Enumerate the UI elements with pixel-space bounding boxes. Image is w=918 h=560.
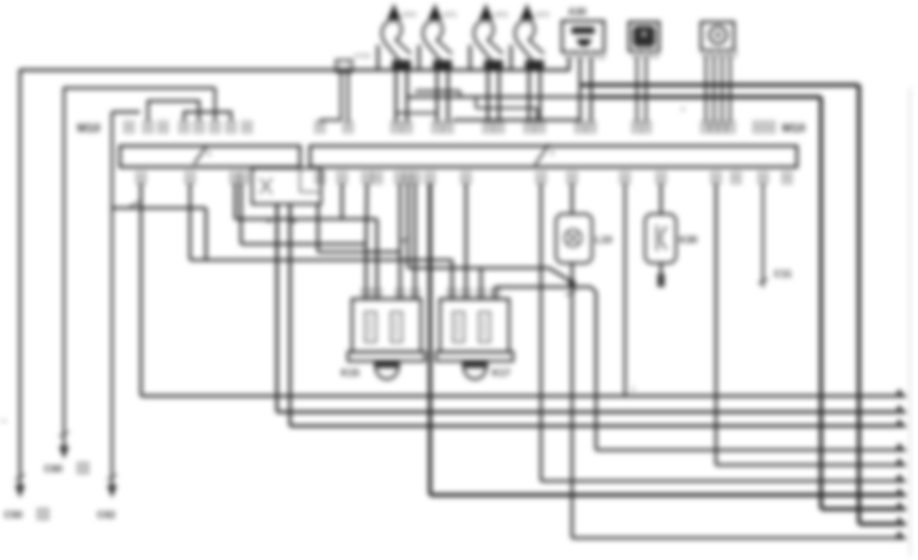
label C60 bbox=[44, 463, 88, 475]
relay K15 bbox=[348, 289, 425, 379]
wire C62 vertical from left strip pin bbox=[112, 112, 140, 487]
wire component C pin3 down bbox=[721, 56, 723, 123]
label C50 bbox=[4, 509, 48, 521]
pin teeth component C bbox=[703, 50, 736, 56]
page left edge stub bbox=[0, 420, 7, 422]
pin above right strip x646 bbox=[642, 122, 651, 133]
arrow exit y495 bbox=[894, 488, 905, 497]
svg-text:N73: N73 bbox=[536, 12, 549, 19]
wire pin190 down join H260 bbox=[189, 183, 192, 260]
wire pin235 via y219 to K15 pin2 bbox=[235, 183, 377, 299]
wire E6 pin541 exit y481 bbox=[541, 183, 906, 481]
svg-text:a: a bbox=[681, 106, 685, 113]
pin above left strip x148 bbox=[144, 122, 153, 133]
wire pin241 via y244 to K15 pin1 bbox=[241, 183, 366, 299]
wire N71 pin B down to strip bbox=[447, 68, 450, 123]
pin above right strip x488 bbox=[484, 122, 493, 133]
relay K17 bbox=[436, 289, 513, 379]
connector tick on C60 wire bbox=[59, 432, 69, 437]
arrow exit y396 bbox=[894, 389, 905, 398]
connector tick on C62 wire bbox=[107, 475, 117, 480]
arrow exit y412 bbox=[894, 405, 905, 414]
wire component C pin1 down bbox=[705, 56, 707, 123]
connector strip left (M10 A) bbox=[120, 146, 300, 167]
arrow C62 wire end bbox=[107, 485, 117, 498]
inline connector on y70 bus bbox=[336, 60, 352, 72]
svg-text:M10: M10 bbox=[77, 121, 101, 135]
wire x625 from strip to junction on E1 bbox=[624, 183, 626, 396]
wire C62 branch y208 to x206 bbox=[112, 202, 206, 209]
pin above left strip x163 bbox=[159, 122, 168, 133]
wire N71 pin A down to strip bbox=[436, 68, 439, 123]
pin below right strip x408 bbox=[404, 173, 413, 184]
wire E10 from splice exit y538 bbox=[572, 283, 906, 538]
pin below right strip x377 bbox=[373, 173, 382, 184]
svg-text:4: 4 bbox=[207, 151, 211, 158]
wire bus y70 from left frame to A30 pin 1 bbox=[20, 69, 569, 72]
jumper loop pins 184-231 bbox=[184, 112, 231, 121]
wire E7 bold pin430 exit y495 bbox=[430, 183, 906, 495]
wire connector to pin 348 bbox=[347, 72, 349, 123]
wire jog at 460 between buses bbox=[459, 91, 461, 97]
wire component B pin2 down bbox=[645, 57, 647, 123]
svg-text:M10: M10 bbox=[782, 121, 806, 135]
injector N70 body bbox=[382, 4, 411, 69]
wire A30 pin3 down through y97 to strip bbox=[590, 58, 593, 123]
svg-text:K17: K17 bbox=[492, 368, 511, 379]
wire N70 pin B down to strip bbox=[406, 68, 409, 123]
wire C50 left vertical bbox=[19, 69, 22, 487]
wire xbox pin322 via y252 bbox=[318, 204, 401, 252]
wire bold bus y97 to right side bbox=[591, 95, 821, 99]
pin below right strip x661 bbox=[657, 173, 666, 184]
arrow exit y426 bbox=[894, 419, 905, 428]
svg-text:N70: N70 bbox=[403, 12, 416, 19]
arrow exit y524 bbox=[894, 517, 905, 526]
pin below right strip x466 bbox=[462, 173, 471, 184]
wire x206 down join H260 bbox=[205, 208, 208, 260]
svg-text:K30: K30 bbox=[679, 235, 698, 246]
connector tick on C11 wire bbox=[758, 279, 768, 284]
pin below left strip x243 bbox=[239, 173, 248, 184]
wire bold bus y85 to right side bbox=[580, 83, 859, 87]
wire N73 pin B down to strip bbox=[539, 68, 542, 123]
pin above right strip x730 bbox=[726, 122, 735, 133]
arrow exit y509 bbox=[894, 502, 905, 511]
wire exit y524 from x859 bbox=[859, 522, 906, 526]
pin below right strip x625 bbox=[621, 173, 630, 184]
wire C60 left vertical bbox=[63, 87, 65, 448]
wire component C pin4 down bbox=[729, 56, 731, 123]
label M10 left bbox=[77, 121, 101, 135]
pin below right strip x572 bbox=[568, 173, 577, 184]
wire jog y509 from x821 exit bbox=[821, 507, 906, 511]
pin above right strip x637 bbox=[633, 122, 642, 133]
pin teeth component B bbox=[633, 51, 658, 57]
wire strip pin466 to K17 pin2 bbox=[465, 183, 468, 299]
wire E4 from K17 pin4 via y287 exit y450 bbox=[495, 287, 906, 450]
arrow exit y465 bbox=[894, 458, 905, 467]
wire N72 pin A down to strip bbox=[487, 68, 490, 123]
wire H268 from pin408 to splice junction bbox=[400, 183, 572, 282]
pin below right strip x736 bbox=[732, 173, 741, 184]
pin below right strip x400 bbox=[396, 173, 405, 184]
arrow C60 wire end bbox=[59, 446, 69, 459]
wire bold vertical x821 down right side bbox=[819, 97, 823, 509]
wire K17 pin3 from H268 junction bbox=[480, 268, 483, 299]
pin below right strip x415 bbox=[411, 173, 420, 184]
component C circle sensor bbox=[701, 22, 734, 50]
wire E2 xbox pin277 exit y412 bbox=[267, 204, 906, 412]
pin below right strip x763 bbox=[759, 173, 768, 184]
svg-text:K15: K15 bbox=[341, 368, 360, 379]
wire H260 to K17 pin1 bbox=[190, 260, 452, 299]
pin above right strip x758 bbox=[754, 122, 763, 133]
pin above right strip x499 bbox=[495, 122, 504, 133]
svg-text:L10: L10 bbox=[595, 235, 613, 246]
label C11 bbox=[774, 269, 792, 280]
wire L10 top from strip bbox=[571, 183, 574, 214]
connector strip right (M10 B) bbox=[310, 144, 797, 167]
pin above right strip x770 bbox=[766, 122, 775, 133]
pin below right strip x541 bbox=[537, 173, 546, 184]
arrow exit y481 bbox=[894, 474, 905, 483]
wire strip pin415 to K15 pin4 bbox=[414, 183, 417, 299]
wire component B pin1 down bbox=[636, 57, 638, 123]
svg-text:N71: N71 bbox=[444, 12, 457, 19]
pin above right strip x540 bbox=[536, 122, 545, 133]
label a at x625 junction bbox=[631, 386, 635, 393]
pin below right strip x367 bbox=[363, 173, 372, 184]
inline connector box with X bbox=[252, 168, 321, 204]
wire E3 xbox pin290 exit y426 bbox=[290, 204, 906, 426]
wire bold vertical x859 down right side bbox=[857, 85, 861, 524]
label M10 right bbox=[782, 121, 806, 135]
connector tick on C50 wire bbox=[15, 475, 25, 480]
injector N71 body bbox=[423, 4, 452, 69]
pin above left strip x215 bbox=[211, 122, 220, 133]
wire L10 bottom to splice bbox=[571, 263, 574, 284]
pin below right strip x320 bbox=[316, 173, 325, 184]
pin above right strip x580 bbox=[576, 122, 585, 133]
injector N72 body bbox=[474, 4, 503, 69]
pin above right strip x348 bbox=[344, 122, 353, 133]
pin above right strip x448 bbox=[444, 122, 453, 133]
pin above right strip x396 bbox=[392, 122, 401, 133]
arrow C50 wire end bbox=[15, 485, 25, 498]
pin teeth A30 bbox=[566, 52, 604, 58]
wire N72 left pin to y70 bus bbox=[469, 45, 472, 71]
jumper loop pins 148-199 bbox=[148, 101, 199, 121]
svg-text:C11: C11 bbox=[774, 269, 792, 280]
wire N70 pin A down to strip bbox=[395, 68, 398, 123]
pin below left strip x190 bbox=[186, 173, 195, 184]
label K17 bbox=[492, 368, 511, 379]
label A30 bbox=[568, 7, 587, 18]
lamp L10 bbox=[556, 214, 592, 263]
wire strip pin367 down join bbox=[366, 183, 367, 244]
pin below right strip x430 bbox=[426, 173, 435, 184]
svg-text:A30: A30 bbox=[568, 7, 587, 18]
svg-text:a: a bbox=[631, 386, 635, 393]
wire K30 top from strip bbox=[660, 183, 663, 214]
wire strip pin342 join H219 bbox=[341, 183, 344, 219]
tick below splice bbox=[566, 291, 576, 296]
label L10 bbox=[595, 235, 613, 246]
wire A30 pin2 down through y85 to strip bbox=[579, 58, 582, 123]
switch K30 bbox=[645, 214, 676, 263]
wire injector bus y120 bbox=[453, 119, 580, 121]
wire injector bus y97 bbox=[407, 96, 591, 98]
pin above right strip x714 bbox=[710, 122, 719, 133]
pin above right strip x529 bbox=[525, 122, 534, 133]
wire bus y88 from C60 to left-strip drop bbox=[64, 88, 215, 121]
label a near component B bbox=[681, 106, 685, 113]
pin above left strip x247 bbox=[243, 122, 252, 133]
label N73 bbox=[536, 12, 549, 19]
wire A30 pin1 to y70 bus bbox=[568, 58, 571, 71]
arrow exit y538 bbox=[894, 531, 905, 540]
pin above left strip x199 bbox=[195, 122, 204, 133]
label N72 bbox=[495, 12, 508, 19]
wire N73 pin A down to strip bbox=[528, 68, 531, 123]
pin below right strip x342 bbox=[338, 173, 347, 184]
pin above left strip x184 bbox=[180, 122, 189, 133]
label wire code near N70 base bbox=[354, 53, 371, 60]
pin above left strip x129 bbox=[125, 122, 134, 133]
component B dark box bbox=[629, 22, 659, 51]
pin above right strip x722 bbox=[718, 122, 727, 133]
wire jog at 437 between buses bbox=[436, 91, 438, 97]
pin above right strip x407 bbox=[403, 122, 412, 133]
wire N72 pin B down to strip bbox=[498, 68, 501, 123]
wire component C pin2 down bbox=[713, 56, 715, 123]
label C62 bbox=[97, 510, 116, 521]
pin above right strip x706 bbox=[702, 122, 711, 133]
label N70 bbox=[403, 12, 416, 19]
pin above right strip x320 bbox=[316, 122, 325, 133]
pin above right strip x437 bbox=[433, 122, 442, 133]
wire N71 left pin to y70 bus bbox=[418, 45, 421, 71]
wire injector bus y108 bbox=[476, 107, 537, 109]
label N71 bbox=[444, 12, 457, 19]
wire jog at 537 buses bbox=[536, 108, 538, 120]
label K15 bbox=[341, 368, 360, 379]
pin below right strip x716 bbox=[712, 173, 721, 184]
svg-text:N72: N72 bbox=[495, 12, 508, 19]
pin below left strip x235 bbox=[231, 173, 240, 184]
svg-text:4: 4 bbox=[550, 150, 554, 157]
wire jog at 476 buses bbox=[475, 97, 477, 108]
svg-text:C50: C50 bbox=[4, 510, 23, 521]
pin above left strip x231 bbox=[227, 122, 236, 133]
wire injector bus y91 bbox=[415, 90, 460, 92]
label K30 bbox=[679, 235, 698, 246]
svg-text:C62: C62 bbox=[97, 510, 116, 521]
page right edge faint line bbox=[909, 88, 911, 556]
wire E5 pin716 exit y465 bbox=[716, 183, 906, 465]
wire N73 left pin to y70 bus bbox=[510, 45, 513, 71]
wire C11 stub from strip bbox=[762, 183, 764, 287]
pin above right strip x591 bbox=[587, 122, 596, 133]
pin below right strip x787 bbox=[783, 173, 792, 184]
wire E1 pin141 exit y396 bbox=[141, 183, 906, 396]
wire K30 bottom stub bbox=[658, 263, 665, 287]
wire connector to pin 320 bbox=[320, 72, 341, 123]
svg-text:N70D: N70D bbox=[354, 53, 371, 60]
injector N73 body bbox=[515, 4, 544, 69]
svg-text:C60: C60 bbox=[44, 464, 63, 475]
wire strip pin400 to K15 pin3 bbox=[399, 183, 402, 299]
pin below left strip x141 bbox=[137, 173, 146, 184]
junction dot splice bbox=[568, 279, 575, 286]
wire N70 left pin to y70 bus bbox=[377, 45, 380, 71]
arrow exit y450 bbox=[894, 443, 905, 452]
wire injector bus y113 bbox=[396, 112, 437, 114]
component A30 box bbox=[562, 21, 604, 52]
